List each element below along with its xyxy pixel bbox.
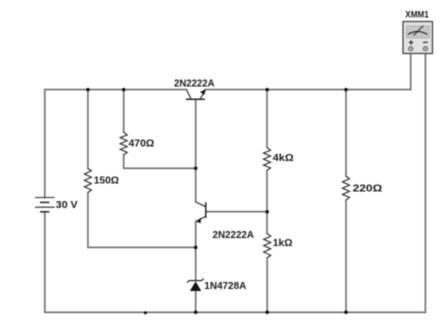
svg-text:150Ω: 150Ω [94, 175, 119, 187]
node dot top rail / 150ohm [86, 88, 90, 92]
transistor Q1 emitter arrow [200, 90, 205, 96]
multimeter XMM1 body [403, 22, 433, 54]
transistor Q2 2N2222A (error amplifier) [196, 202, 206, 221]
node dot Q2 emitter / 150ohm return [194, 246, 198, 250]
resistor 1k zigzag [264, 234, 271, 258]
Q1 collector lead [186, 90, 191, 99]
wire between 4k and 1k [266, 170, 268, 233]
svg-text:4kΩ: 4kΩ [273, 152, 294, 164]
svg-text:30 V: 30 V [56, 199, 78, 211]
wire 220 ohm branch top [345, 90, 347, 177]
node dot top rail / 220ohm [344, 88, 348, 92]
XMM1 display panel [407, 26, 430, 38]
svg-text:XMM1: XMM1 [405, 10, 429, 20]
node dot Q1 base / 470ohm feed [194, 167, 198, 171]
node dot top rail / 4k [265, 88, 269, 92]
wire 4k branch top [266, 90, 268, 148]
battery V1 [35, 198, 55, 212]
wire 470 ohm branch top [123, 90, 125, 133]
XMM1 meter needle [413, 26, 423, 36]
zener diode cathode bar with wings [187, 279, 204, 283]
wire 1k bottom to rail [266, 258, 268, 313]
wire Q2 base to divider node [206, 211, 267, 213]
node dot bottom rail stray joint [144, 311, 147, 314]
wire 150 ohm branch top [87, 90, 89, 169]
wire 220 ohm branch bottom [345, 200, 347, 312]
XMM1 minus terminal [423, 47, 427, 51]
wire Q2 emitter down to node E2 and zener [195, 221, 197, 280]
node dot Q2 base / divider [265, 210, 269, 214]
Q2 base bar [205, 202, 207, 218]
XMM1 plus terminal [409, 47, 413, 51]
svg-text:2N2222A: 2N2222A [174, 78, 215, 90]
wire top rail left segment [45, 89, 187, 91]
zener diode 1N4728A anode triangle [190, 281, 201, 291]
XMM1 minus mark [423, 41, 428, 43]
resistor 220 ohm zigzag [343, 176, 350, 200]
wire Q1 base down to Q2 collector [195, 100, 197, 202]
resistor 470 ohm zigzag [120, 132, 127, 155]
resistor 150 ohm zigzag [84, 169, 91, 193]
wire battery branch top [44, 90, 46, 198]
wire top rail right segment [205, 89, 411, 91]
wire 470 ohm branch bottom + horizontal to Q1 base node [124, 155, 196, 169]
node dot bottom rail / 1k [265, 311, 269, 315]
node dot bottom rail / zener [194, 311, 198, 315]
XMM1 meter arc [408, 32, 427, 35]
wire bottom rail [45, 311, 426, 313]
node dot bottom rail / 220ohm [344, 311, 348, 315]
wire XMM1 plus lead [410, 51, 412, 89]
svg-text:1N4728A: 1N4728A [204, 280, 246, 292]
wire zener to bottom rail [195, 291, 197, 312]
Q2 emitter lead [197, 217, 205, 221]
Q1 base bar [186, 98, 205, 100]
transistor Q1 2N2222A (top, series pass) [186, 90, 206, 100]
node dot top rail / 470ohm [122, 88, 126, 92]
XMM1 plus mark [409, 40, 413, 44]
transistor Q2 emitter arrow [196, 218, 201, 224]
svg-text:220Ω: 220Ω [353, 182, 383, 194]
svg-text:1kΩ: 1kΩ [273, 237, 293, 249]
Q2 collector lead [196, 202, 205, 207]
Q1 emitter lead [200, 90, 205, 99]
svg-text:470Ω: 470Ω [129, 137, 155, 149]
svg-text:2N2222A: 2N2222A [213, 229, 255, 241]
wire battery branch bottom [44, 212, 46, 312]
wire XMM1 minus lead [424, 51, 426, 312]
resistor 4k zigzag [264, 148, 271, 171]
wire 150 ohm branch bottom + horizontal return to node E2 [88, 193, 196, 248]
